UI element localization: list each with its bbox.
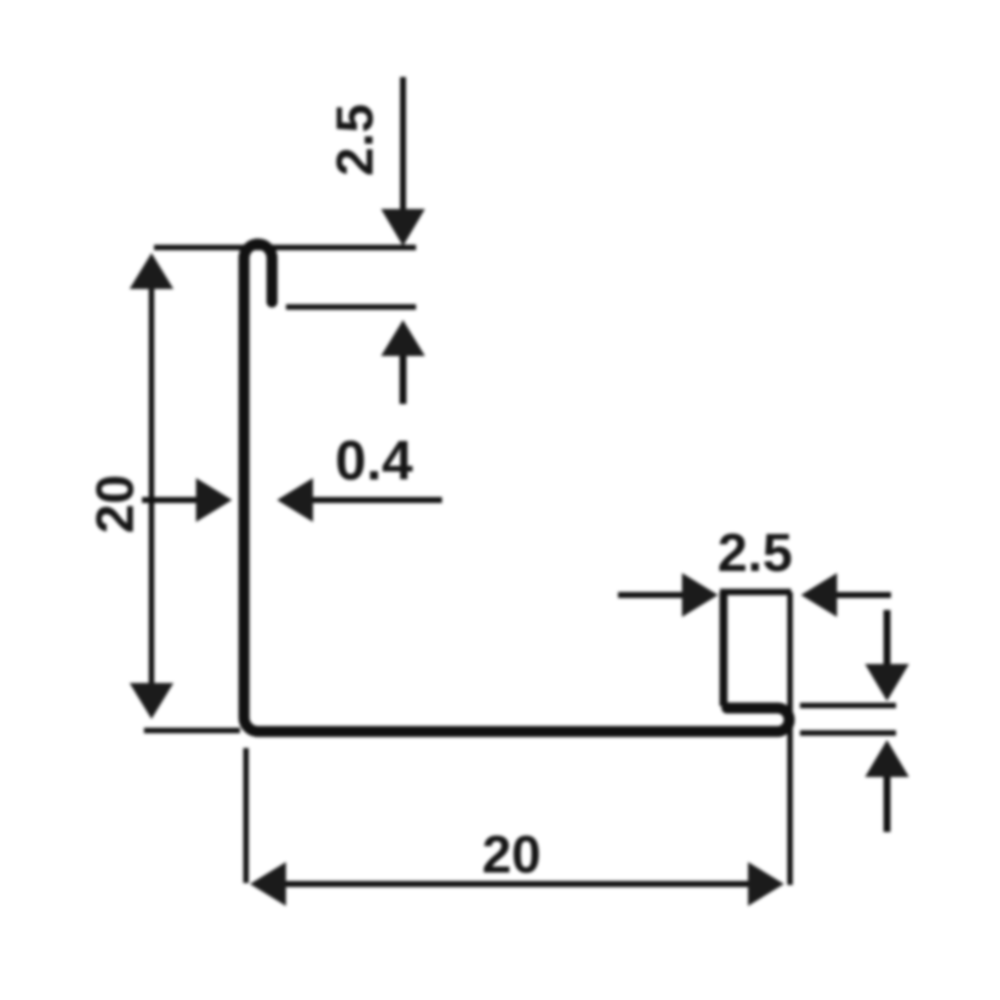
dim 20 bottom: left extension line (below corner): [243, 748, 249, 883]
second extension line (bottom of top hook, y=307): [286, 304, 416, 310]
dim 2.5 right: right-pointing arrow shaft: [618, 592, 688, 598]
svg-text:2.5: 2.5: [717, 523, 792, 583]
svg-text:20: 20: [482, 826, 541, 885]
thickness dim right: upper extension line: [800, 703, 896, 709]
dim 20 bottom: left arrowhead: [250, 862, 286, 906]
dim 0.4: right-pointing arrowhead: [196, 478, 232, 522]
thickness dim right: down arrowhead: [865, 664, 909, 701]
thickness dim right: lower extension line: [800, 730, 896, 736]
dim 0.4: right-pointing arrow shaft (from dim line): [142, 497, 200, 503]
dim 2.5 top: up arrow shaft: [400, 354, 407, 404]
svg-text:0.4: 0.4: [335, 429, 413, 492]
thickness dim right: up arrowhead: [865, 740, 909, 777]
dim 20 left: vertical dimension line: [149, 286, 155, 686]
dim 2.5 right: left-pointing arrowhead: [801, 573, 837, 617]
dim 20 bottom: dimension line: [282, 881, 752, 887]
dim 2.5 top: up arrowhead: [381, 320, 425, 356]
extension line right (hem right side + bottom dim extension): [787, 592, 793, 885]
thickness dim right: up arrow shaft: [884, 770, 891, 832]
hem box top side: [720, 589, 791, 596]
dim 2.5 right: left-pointing arrow shaft: [831, 592, 891, 598]
svg-text:20: 20: [86, 475, 145, 534]
dim 0.4: left-pointing arrowhead: [277, 478, 313, 522]
dim 20 left: down arrowhead: [130, 683, 174, 719]
svg-text:2.5: 2.5: [327, 104, 385, 176]
dim 2.5 top: down arrow shaft: [400, 77, 406, 216]
profile main outline (thick): top hem hook, vertical leg, corner, bottom leg, right U-fold: [244, 244, 789, 732]
dim 20 left: extension line bottom-left: [144, 728, 240, 734]
dim 0.4: left-pointing arrow shaft: [310, 497, 442, 503]
dim 2.5 top: down arrowhead: [381, 209, 425, 246]
dim 20 left: up arrowhead: [130, 253, 174, 289]
dim 20 bottom: right arrowhead: [748, 862, 784, 906]
hem box left side (right end upstand): [720, 592, 728, 706]
thickness dim right: down arrow shaft: [884, 610, 891, 675]
dim 2.5 right: right-pointing arrowhead: [682, 573, 718, 617]
top extension line (top of profile, y=246): [154, 245, 416, 251]
